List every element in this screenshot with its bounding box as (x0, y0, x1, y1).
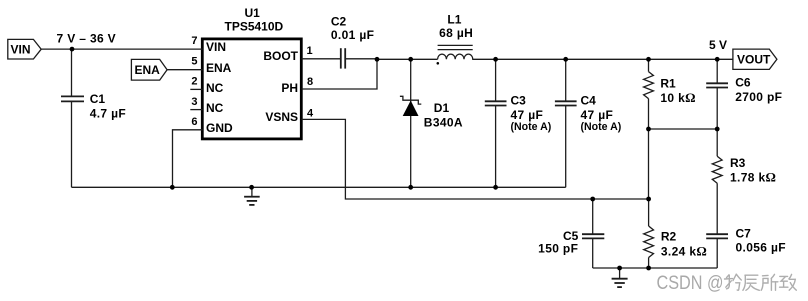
svg-text:150 pF: 150 pF (538, 242, 578, 256)
svg-text:10 kΩ: 10 kΩ (660, 90, 696, 105)
svg-text:R1: R1 (660, 77, 676, 91)
svg-text:2700 pF: 2700 pF (735, 90, 782, 104)
svg-text:47 µF: 47 µF (581, 108, 614, 122)
svg-text:7: 7 (191, 35, 197, 47)
svg-text:8: 8 (307, 76, 313, 88)
svg-text:6: 6 (191, 116, 197, 128)
svg-text:1.78 kΩ: 1.78 kΩ (730, 170, 776, 185)
svg-text:NC: NC (206, 81, 224, 95)
svg-text:C7: C7 (736, 227, 752, 241)
svg-text:C1: C1 (90, 92, 106, 106)
svg-text:5: 5 (191, 56, 197, 68)
svg-text:3.24 kΩ: 3.24 kΩ (661, 244, 707, 259)
svg-text:47 µF: 47 µF (511, 108, 544, 122)
svg-text:VIN: VIN (206, 40, 226, 54)
svg-text:68 µH: 68 µH (439, 26, 473, 40)
svg-text:L1: L1 (447, 13, 461, 27)
svg-text:0.01 µF: 0.01 µF (331, 28, 374, 42)
svg-text:VIN: VIN (11, 43, 31, 57)
svg-text:R2: R2 (661, 230, 677, 244)
svg-text:BOOT: BOOT (263, 49, 298, 63)
svg-text:C3: C3 (511, 94, 527, 108)
svg-text:C6: C6 (735, 75, 751, 89)
svg-text:5 V: 5 V (709, 38, 727, 52)
svg-text:3: 3 (191, 96, 197, 108)
svg-text:(Note A): (Note A) (581, 121, 622, 133)
svg-text:C2: C2 (331, 15, 347, 29)
svg-text:7 V – 36 V: 7 V – 36 V (57, 32, 117, 46)
svg-text:4.7 µF: 4.7 µF (90, 107, 126, 121)
svg-text:NC: NC (206, 101, 224, 115)
svg-text:4: 4 (307, 107, 314, 119)
svg-text:R3: R3 (730, 156, 746, 170)
svg-text:D1: D1 (434, 101, 450, 115)
svg-text:CSDN @: CSDN @ (657, 273, 724, 294)
svg-text:1: 1 (307, 45, 313, 57)
svg-text:B340A: B340A (424, 116, 463, 130)
svg-text:U1: U1 (245, 6, 261, 20)
svg-text:ENA: ENA (206, 61, 232, 75)
svg-text:VOUT: VOUT (737, 53, 771, 67)
svg-text:(Note A): (Note A) (511, 121, 552, 133)
svg-text:PH: PH (281, 81, 298, 95)
svg-text:C4: C4 (581, 94, 597, 108)
svg-text:2: 2 (191, 76, 197, 88)
svg-text:TPS5410D: TPS5410D (225, 19, 284, 33)
svg-text:0.056 µF: 0.056 µF (736, 241, 786, 255)
svg-text:ENA: ENA (135, 63, 161, 77)
svg-text:GND: GND (206, 121, 233, 135)
svg-text:VSNS: VSNS (265, 110, 298, 124)
